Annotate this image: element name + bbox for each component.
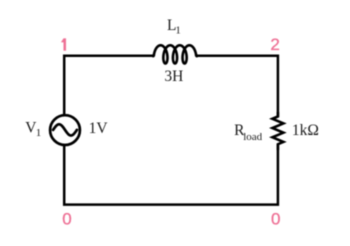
svg-text:0: 0 bbox=[271, 209, 280, 228]
resistor Rload bbox=[272, 112, 283, 150]
svg-text:3H: 3H bbox=[164, 68, 183, 85]
svg-text:0: 0 bbox=[62, 210, 71, 229]
svg-text:2: 2 bbox=[270, 35, 279, 54]
wire top-right segment: node 2 corner, top rail right + right rail upper bbox=[198, 56, 278, 117]
svg-text:1: 1 bbox=[36, 127, 42, 139]
svg-text:1V: 1V bbox=[89, 120, 109, 137]
svg-text:load: load bbox=[243, 131, 262, 143]
wire bottom segment: left rail lower + bottom rail + right rail lower (nodes 0) bbox=[64, 144, 278, 204]
svg-text:1: 1 bbox=[175, 25, 181, 37]
voltage source V1 (circle body) bbox=[50, 115, 80, 145]
wire top-left segment: node 1 corner, top rail left + left rail upper bbox=[64, 56, 152, 115]
inductor L1 bbox=[153, 45, 198, 63]
svg-text:1kΩ: 1kΩ bbox=[292, 122, 319, 139]
node 1 bbox=[61, 39, 66, 51]
voltage source V1 sine symbol bbox=[53, 124, 77, 135]
